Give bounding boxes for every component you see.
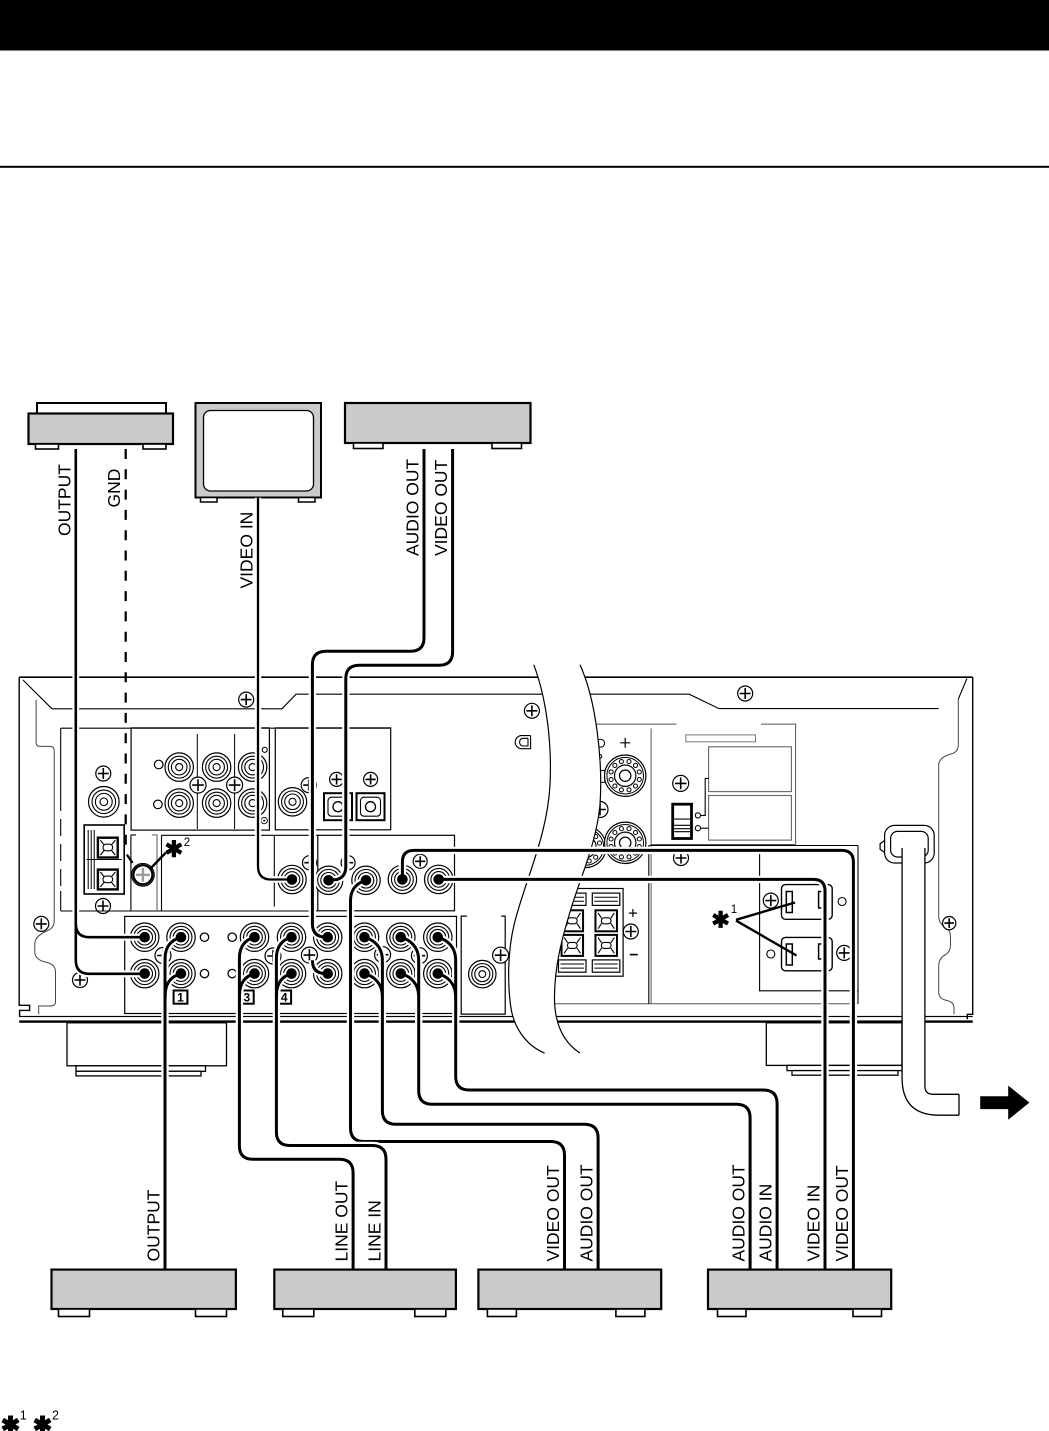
grid mini jack row1 <box>200 933 208 941</box>
screw right of outlet2 <box>837 945 852 960</box>
screw above antenna jack <box>96 766 111 781</box>
cable c4 pair to LINE IN box2 <box>276 937 386 1269</box>
svg-text:GND: GND <box>104 469 124 508</box>
binding post B (front -) <box>605 822 646 863</box>
screw left ear lower <box>34 916 49 931</box>
turntable (record player) <box>29 403 174 449</box>
svg-text:AUDIO IN: AUDIO IN <box>756 1184 776 1262</box>
GND screw terminal <box>132 863 155 886</box>
grid jack col6 row1 <box>350 923 378 951</box>
cable VIDEO IN from TV <box>258 498 292 880</box>
input jack L col216.6 <box>202 753 230 781</box>
receiver bottom edges <box>19 1016 973 1017</box>
header black bar <box>0 0 1049 51</box>
cable c7 pair to AUDIO OUT box4 <box>401 937 750 1269</box>
receiver chassis outline <box>19 677 973 1019</box>
cable monitor jack5 to VIDEO IN box4 <box>439 879 825 1269</box>
cable c2 pair to OUTPUT box1 <box>165 937 181 1269</box>
digital input block <box>275 728 390 830</box>
svg-text:2: 2 <box>184 837 190 849</box>
GND wire (dashed) <box>126 449 137 869</box>
screw top band right <box>738 686 753 701</box>
svg-text:VIDEO OUT: VIDEO OUT <box>431 459 451 556</box>
asterisk 2 callout (GND) <box>150 853 167 870</box>
horizontal rule <box>0 166 1049 168</box>
partial tab fragment <box>597 770 605 782</box>
power cord strain relief grommet <box>880 825 934 863</box>
svg-text:LINE IN: LINE IN <box>365 1200 385 1261</box>
grid jack col8 row2 <box>424 959 452 987</box>
voltage selector box 1 <box>709 747 792 792</box>
screw in main grid <box>375 947 391 963</box>
cable monitor jack3 to VIDEO OUT deck <box>351 880 565 1269</box>
recessed panel left edge (partly dashed) <box>60 728 62 794</box>
screw in main grid <box>155 948 171 964</box>
svg-text:1: 1 <box>731 904 737 916</box>
main input/output jack grid box <box>125 916 457 1013</box>
svg-text:1: 1 <box>177 990 184 1004</box>
grid mini jack row2 <box>228 969 236 977</box>
plus mark clips <box>629 909 637 917</box>
svg-text:4: 4 <box>281 990 288 1004</box>
screw between input cols 2-3 <box>227 777 243 793</box>
optical connector 2 <box>357 793 385 820</box>
screw subwoofer <box>493 947 509 963</box>
screw left of outlet1 <box>763 893 778 908</box>
asterisk 1 callout (AC outlets) <box>736 903 797 956</box>
bottom device 4 (video deck B) <box>708 1270 891 1317</box>
grid jack col2 row1 <box>167 923 195 951</box>
bottom device 2 (tape deck) <box>274 1270 456 1317</box>
input number label 3 <box>240 991 254 1004</box>
partial binding post behind break <box>565 826 606 867</box>
screw monitor row 3 <box>413 854 427 868</box>
input number label 4 <box>277 991 291 1004</box>
AC outlet 1 <box>782 885 833 920</box>
footnote asterisk 1 <box>3 1416 19 1431</box>
hole right of outlet1 <box>838 898 846 906</box>
grid jack col7 row2 <box>387 959 415 987</box>
bottom device 3 (video deck A) <box>478 1270 661 1317</box>
grid jack col3 row1 <box>240 923 268 951</box>
break band (torn illustration gap) <box>509 665 601 1053</box>
cable VIDEO OUT from source <box>329 449 453 880</box>
svg-text:OUTPUT: OUTPUT <box>144 1189 164 1261</box>
power cord <box>902 848 959 1115</box>
coax digital jack <box>278 788 306 816</box>
input jack R col252.6 <box>238 789 266 817</box>
screw switch area <box>673 775 689 791</box>
optical connector 1 <box>324 793 352 820</box>
monitor row jack 1 <box>278 865 306 893</box>
analog input jack block <box>131 728 269 830</box>
grid jack col1 row2 <box>131 959 159 987</box>
chassis top fold lines <box>23 679 967 709</box>
grid mini jack row1 <box>228 933 236 941</box>
switch wire contact 1 <box>695 813 700 818</box>
screw top band left <box>239 692 254 707</box>
input jack R col179.2 <box>165 789 193 817</box>
grid jack col5 row2 <box>314 959 342 987</box>
mini jack S2 <box>154 800 163 809</box>
grid jack col7 row1 <box>387 923 415 951</box>
mini jack S1 <box>154 760 163 769</box>
screw outlet section top-left <box>674 851 689 866</box>
recessed panel top edge <box>61 727 391 729</box>
subwoofer jack <box>469 960 496 987</box>
75-ohm antenna coax jack <box>89 787 120 818</box>
monitor out jack box <box>318 835 455 911</box>
right mounting ear <box>939 699 959 1014</box>
svg-text:LINE OUT: LINE OUT <box>332 1180 352 1261</box>
svg-text:1: 1 <box>20 1409 27 1423</box>
svg-text:VIDEO OUT: VIDEO OUT <box>543 1165 563 1262</box>
grid mini jack row2 <box>200 969 208 977</box>
screw digital coax <box>301 778 316 793</box>
subwoofer pre-out box <box>461 916 505 1014</box>
svg-text:OUTPUT: OUTPUT <box>54 464 74 536</box>
screw in main grid <box>265 948 281 964</box>
binding post A (front +) <box>605 755 646 796</box>
screw speaker area <box>592 802 608 818</box>
grid jack col3 row2 <box>240 959 268 987</box>
hole left of outlet2 <box>767 950 775 958</box>
AC outlet section box <box>649 846 858 1004</box>
AV source component (DVD/LD player) <box>345 403 531 449</box>
svg-text:AUDIO OUT: AUDIO OUT <box>402 458 422 556</box>
screw below antenna block <box>96 899 111 914</box>
screw left of input grid <box>73 973 88 988</box>
cable turntable OUTPUT <box>76 449 145 974</box>
small hole circle <box>597 739 605 747</box>
svg-text:AUDIO OUT: AUDIO OUT <box>577 1164 597 1262</box>
AM antenna terminal block <box>84 825 124 894</box>
screw in main grid <box>301 947 317 963</box>
tiny index circle <box>262 747 267 752</box>
svg-text:3: 3 <box>243 990 250 1004</box>
svg-text:2: 2 <box>52 1409 59 1423</box>
right spring clip block <box>555 889 623 977</box>
grid jack col4 row2 <box>277 959 305 987</box>
switch wire contact 2 <box>695 826 700 831</box>
slide switch <box>673 804 692 838</box>
grid jack col5 row1 <box>314 923 342 951</box>
input number label 1 <box>174 991 188 1004</box>
screw optical 2 <box>364 772 378 786</box>
voltage selector box 2 <box>709 796 792 841</box>
screw between input cols 1-2 <box>190 777 206 793</box>
input jack L col252.6 <box>238 753 266 781</box>
direction arrow <box>980 1086 1029 1120</box>
screw in main grid <box>411 948 427 964</box>
grid jack col8 row1 <box>424 923 452 951</box>
monitor row jack 3 <box>352 866 380 894</box>
mid band section lines <box>61 835 318 911</box>
input jack L col179.2 <box>165 753 193 781</box>
cable c6 pair to AUDIO OUT deck <box>365 937 599 1269</box>
TV monitor <box>196 403 322 502</box>
footnote asterisk 2 <box>35 1416 51 1431</box>
cable c3 pair to LINE OUT box2 <box>239 937 353 1269</box>
grid jack col6 row2 <box>350 959 378 987</box>
cable AUDIO OUT from source <box>312 449 424 974</box>
svg-text:VIDEO IN: VIDEO IN <box>237 512 257 589</box>
receiver right foot <box>766 1023 902 1075</box>
bottom device 1 (turntable out) <box>52 1270 236 1317</box>
grid jack col2 row2 <box>167 959 195 987</box>
svg-text:VIDEO IN: VIDEO IN <box>804 1185 824 1262</box>
screw optical 1 <box>330 772 344 786</box>
monitor row jack 4 <box>388 865 416 893</box>
cable c8 pair to AUDIO IN box4 <box>438 937 777 1269</box>
tiny reg mark <box>261 817 267 823</box>
screw monitor row 1 <box>303 856 317 870</box>
svg-text:VIDEO OUT: VIDEO OUT <box>832 1165 852 1262</box>
break curve left <box>509 665 551 1053</box>
left mounting ear <box>35 700 56 1014</box>
minus mark clips <box>630 954 638 956</box>
jack plug dots <box>139 874 444 979</box>
break curve right <box>554 665 600 1053</box>
input jack R col216.6 <box>202 789 230 817</box>
svg-text:AUDIO OUT: AUDIO OUT <box>729 1164 749 1262</box>
cable monitor jack4 to VIDEO OUT box4 <box>402 850 853 1269</box>
screw clips <box>623 924 638 939</box>
AC outlet 2 <box>782 937 833 970</box>
plus mark front speaker <box>620 738 630 748</box>
screw monitor row 2 <box>341 856 355 870</box>
monitor row jack 5 <box>425 865 453 893</box>
grid jack col1 row1 <box>131 923 159 951</box>
speaker section divider <box>650 728 652 1003</box>
monitor row jack 2 <box>314 866 342 894</box>
grid jack col4 row1 <box>277 923 305 951</box>
label plate <box>686 735 756 742</box>
tiny hole circle <box>598 755 602 759</box>
screw top band mid <box>524 703 539 718</box>
keyhole slot <box>515 736 530 749</box>
screw right ear <box>943 917 956 930</box>
receiver left foot <box>67 1023 227 1076</box>
